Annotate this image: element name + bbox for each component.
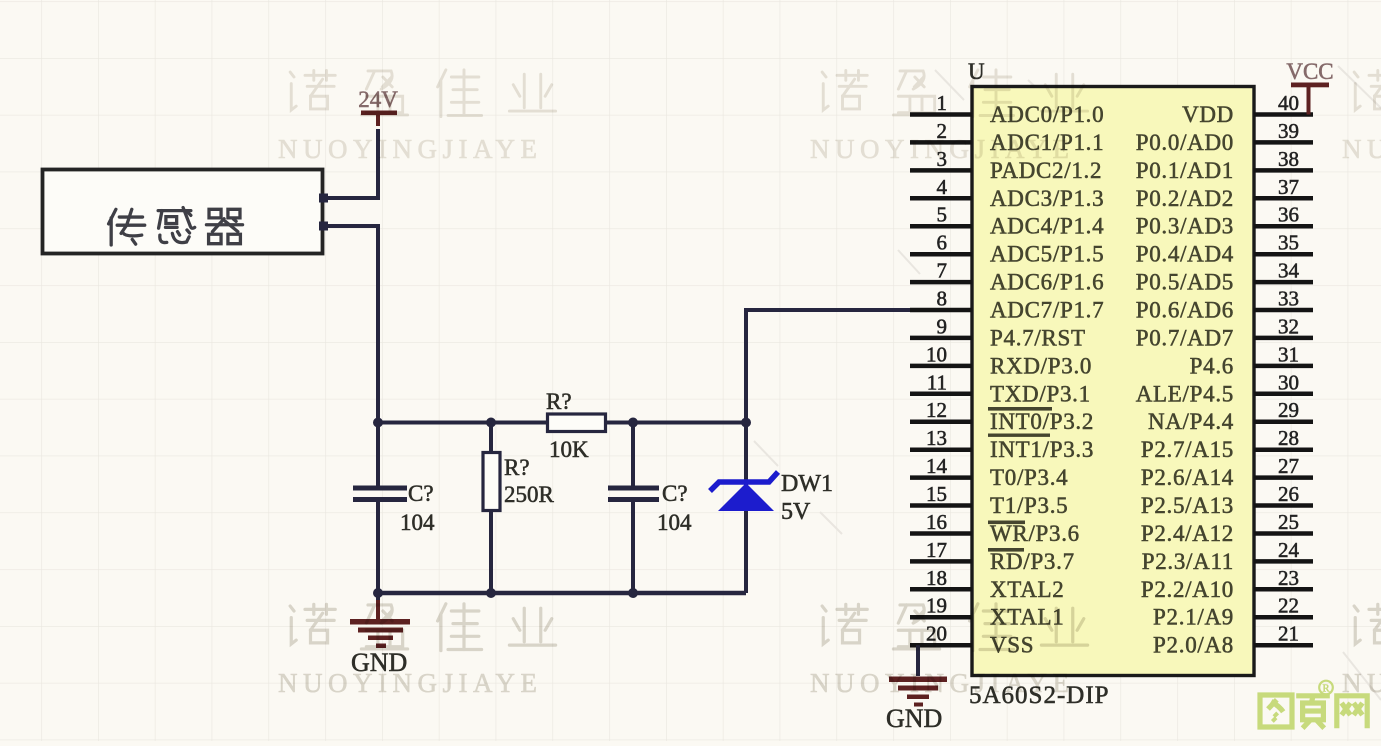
overline WR (pin 16) <box>988 521 1025 525</box>
svg-text:P0.1/AD1: P0.1/AD1 <box>1136 158 1234 183</box>
IC U 5A60S2-DIP body <box>972 87 1254 676</box>
pin 21 P2.0/A8 <box>1153 622 1313 658</box>
svg-text:32: 32 <box>1278 314 1299 338</box>
power +24V <box>358 87 398 126</box>
pin 14 T0/P3.4 <box>910 454 1068 490</box>
node sensor upper pin <box>319 194 328 203</box>
svg-text:VDD: VDD <box>1182 102 1234 127</box>
pin 9 P4.7/RST <box>910 314 1086 350</box>
junction top rail / C2 <box>628 418 638 428</box>
svg-text:35: 35 <box>1278 231 1299 255</box>
svg-text:14: 14 <box>926 454 948 478</box>
svg-text:XTAL1: XTAL1 <box>990 605 1064 630</box>
svg-text:XTAL2: XTAL2 <box>990 577 1064 602</box>
svg-text:P2.1/A9: P2.1/A9 <box>1153 605 1234 630</box>
svg-text:VCC: VCC <box>1286 59 1333 84</box>
svg-text:NUOYINGJIAYE: NUOYINGJIAYE <box>810 668 1075 698</box>
svg-text:17: 17 <box>926 538 947 562</box>
svg-text:ADC5/P1.5: ADC5/P1.5 <box>990 242 1104 267</box>
pin 36 P0.3/AD3 <box>1136 203 1313 239</box>
svg-text:28: 28 <box>1278 426 1299 450</box>
svg-text:INT0/P3.2: INT0/P3.2 <box>990 409 1094 434</box>
pin 11 TXD/P3.1 <box>910 370 1091 406</box>
svg-text:16: 16 <box>926 510 947 534</box>
svg-text:P0.5/AD5: P0.5/AD5 <box>1136 270 1234 295</box>
capacitor C1 <box>353 421 407 593</box>
svg-text:ADC7/P1.7: ADC7/P1.7 <box>990 298 1104 323</box>
svg-text:31: 31 <box>1278 342 1299 366</box>
pin 1 ADC0/P1.0 <box>910 91 1104 127</box>
pin 31 P4.6 <box>1190 342 1313 378</box>
svg-text:13: 13 <box>926 426 947 450</box>
wire top rail <box>378 421 746 425</box>
overline INT0 (pin 12) <box>988 407 1052 411</box>
svg-text:ADC4/P1.4: ADC4/P1.4 <box>990 214 1104 239</box>
svg-text:NA/P4.4: NA/P4.4 <box>1148 409 1234 434</box>
pin 3 PADC2/1.2 <box>910 147 1102 183</box>
svg-text:ADC6/P1.6: ADC6/P1.6 <box>990 270 1104 295</box>
svg-text:RXD/P3.0: RXD/P3.0 <box>990 353 1092 378</box>
pin 25 P2.4/A12 <box>1141 510 1313 546</box>
pin 32 P0.7/AD7 <box>1136 314 1313 350</box>
svg-text:ADC3/P1.3: ADC3/P1.3 <box>990 186 1104 211</box>
pin 23 P2.2/A10 <box>1141 566 1313 602</box>
svg-text:P0.7/AD7: P0.7/AD7 <box>1136 325 1234 350</box>
pin 28 P2.7/A15 <box>1141 426 1313 462</box>
svg-text:6: 6 <box>937 231 948 255</box>
ground GND chip VSS <box>886 645 947 733</box>
pin 15 T1/P3.5 <box>910 482 1068 518</box>
svg-text:WR/P3.6: WR/P3.6 <box>990 521 1080 546</box>
svg-text:104: 104 <box>400 510 435 535</box>
svg-text:250R: 250R <box>504 482 555 507</box>
ground GND left <box>350 593 410 677</box>
svg-text:ALE/P4.5: ALE/P4.5 <box>1136 381 1234 406</box>
svg-text:NUOYINGJIAYE: NUOYINGJIAYE <box>810 134 1075 164</box>
svg-text:T1/P3.5: T1/P3.5 <box>990 493 1068 518</box>
junction bottom rail / C1 <box>373 588 383 598</box>
svg-text:NUOYINGJIAYE: NUOYINGJIAYE <box>1342 134 1381 164</box>
svg-text:NUOYINGJIAYE: NUOYINGJIAYE <box>278 668 543 698</box>
svg-text:7: 7 <box>937 259 948 283</box>
pin 7 ADC6/P1.6 <box>910 259 1104 295</box>
svg-text:P4.7/RST: P4.7/RST <box>990 325 1086 350</box>
svg-text:GND: GND <box>886 704 942 733</box>
pin 39 P0.0/AD0 <box>1136 119 1313 155</box>
svg-text:INT1/P3.3: INT1/P3.3 <box>990 437 1094 462</box>
svg-text:19: 19 <box>926 594 947 618</box>
svg-text:18: 18 <box>926 566 947 590</box>
svg-text:8: 8 <box>937 287 948 311</box>
capacitor C2 <box>608 421 659 593</box>
svg-text:34: 34 <box>1278 259 1300 283</box>
pin 22 P2.1/A9 <box>1153 594 1313 630</box>
pin 30 ALE/P4.5 <box>1136 370 1313 406</box>
svg-text:C?: C? <box>662 481 688 506</box>
svg-text:38: 38 <box>1278 147 1299 171</box>
pin 18 XTAL2 <box>910 566 1064 602</box>
pin 4 ADC3/P1.3 <box>910 175 1104 211</box>
svg-text:11: 11 <box>927 370 947 394</box>
svg-text:104: 104 <box>657 510 692 535</box>
resistor R2 250R <box>483 421 500 593</box>
resistor R1 10K <box>548 414 606 432</box>
node sensor lower pin <box>319 222 328 231</box>
svg-text:P2.3/A11: P2.3/A11 <box>1142 549 1234 574</box>
pin 10 RXD/P3.0 <box>910 342 1092 378</box>
svg-text:30: 30 <box>1278 370 1299 394</box>
pin 37 P0.2/AD2 <box>1136 175 1313 211</box>
overline INT1 (pin 13) <box>988 434 1050 437</box>
svg-text:P2.6/A14: P2.6/A14 <box>1141 465 1234 490</box>
svg-text:26: 26 <box>1278 482 1299 506</box>
junction top rail / C1 <box>373 418 383 428</box>
overline RD (pin 17) <box>988 548 1024 552</box>
pin 19 XTAL1 <box>910 594 1064 630</box>
svg-text:P2.7/A15: P2.7/A15 <box>1141 437 1234 462</box>
junction bottom rail / R2 <box>486 588 496 598</box>
svg-text:R: R <box>1322 684 1329 695</box>
pin 27 P2.6/A14 <box>1141 454 1313 490</box>
wire sensor to filter rail <box>323 226 378 424</box>
pin 16 WR/P3.6 <box>910 510 1080 546</box>
svg-text:10K: 10K <box>549 437 589 462</box>
svg-text:36: 36 <box>1278 203 1299 227</box>
svg-text:P2.5/A13: P2.5/A13 <box>1141 493 1234 518</box>
junction bottom rail / C2 <box>628 588 638 598</box>
svg-text:21: 21 <box>1278 622 1299 646</box>
pin 35 P0.4/AD4 <box>1136 231 1313 267</box>
svg-text:22: 22 <box>1278 594 1299 618</box>
svg-text:15: 15 <box>926 482 947 506</box>
svg-text:20: 20 <box>926 622 947 646</box>
svg-text:NUOYINGJIAYE: NUOYINGJIAYE <box>278 134 543 164</box>
svg-text:33: 33 <box>1278 287 1299 311</box>
pin 17 RD/P3.7 <box>910 538 1075 574</box>
wire 24V to sensor pin <box>323 129 378 198</box>
pin 26 P2.5/A13 <box>1141 482 1313 518</box>
watermark overlay NUOYINGJIAYE <box>278 70 1381 698</box>
svg-text:24: 24 <box>1278 538 1300 562</box>
svg-text:40: 40 <box>1278 91 1299 115</box>
pin 13 INT1/P3.3 <box>910 426 1094 462</box>
pin 20 VSS <box>910 622 1034 658</box>
svg-text:P2.2/A10: P2.2/A10 <box>1141 577 1234 602</box>
svg-text:R?: R? <box>504 455 530 480</box>
svg-text:39: 39 <box>1278 119 1299 143</box>
svg-text:29: 29 <box>1278 398 1299 422</box>
svg-text:10: 10 <box>926 342 947 366</box>
svg-text:P2.0/A8: P2.0/A8 <box>1153 633 1234 658</box>
pin 24 P2.3/A11 <box>1142 538 1313 574</box>
junction top rail / R2 <box>486 418 496 428</box>
svg-text:37: 37 <box>1278 175 1299 199</box>
pin 8 ADC7/P1.7 <box>910 287 1104 323</box>
svg-text:P0.4/AD4: P0.4/AD4 <box>1136 242 1234 267</box>
svg-text:27: 27 <box>1278 454 1299 478</box>
svg-text:P0.2/AD2: P0.2/AD2 <box>1136 186 1234 211</box>
pin 6 ADC5/P1.5 <box>910 231 1104 267</box>
svg-text:23: 23 <box>1278 566 1299 590</box>
pin 38 P0.1/AD1 <box>1136 147 1313 183</box>
pin 12 INT0/P3.2 <box>910 398 1094 434</box>
svg-text:TXD/P3.1: TXD/P3.1 <box>990 381 1091 406</box>
svg-text:4: 4 <box>937 175 948 199</box>
pin 2 ADC1/P1.1 <box>910 119 1104 155</box>
wire bottom rail <box>378 591 746 596</box>
svg-text:P0.0/AD0: P0.0/AD0 <box>1136 130 1234 155</box>
svg-text:P0.3/AD3: P0.3/AD3 <box>1136 214 1234 239</box>
pin 40 VDD <box>1182 91 1313 127</box>
svg-text:5V: 5V <box>781 499 811 525</box>
svg-text:1: 1 <box>937 91 948 115</box>
zener diode DW1 <box>710 472 778 593</box>
power VCC <box>1286 59 1333 115</box>
svg-text:C?: C? <box>408 481 434 506</box>
pin 34 P0.5/AD5 <box>1136 259 1313 295</box>
pin 29 NA/P4.4 <box>1148 398 1313 434</box>
wire zener branch to chip pin 8 <box>746 310 972 485</box>
svg-text:P4.6: P4.6 <box>1190 353 1234 378</box>
sensor block 传感器 <box>43 170 323 254</box>
svg-text:NUOYINGJIAYE: NUOYINGJIAYE <box>1342 668 1381 698</box>
pin 33 P0.6/AD6 <box>1136 287 1313 323</box>
svg-text:DW1: DW1 <box>781 471 833 497</box>
svg-text:RD/P3.7: RD/P3.7 <box>990 549 1075 574</box>
svg-text:9: 9 <box>937 314 948 338</box>
logo 图页网 <box>1260 681 1367 729</box>
svg-text:25: 25 <box>1278 510 1299 534</box>
svg-text:P2.4/A12: P2.4/A12 <box>1141 521 1234 546</box>
svg-text:T0/P3.4: T0/P3.4 <box>990 465 1068 490</box>
junction top rail / zener <box>741 418 751 428</box>
svg-text:5: 5 <box>937 203 948 227</box>
svg-text:R?: R? <box>546 389 572 414</box>
svg-text:P0.6/AD6: P0.6/AD6 <box>1136 298 1234 323</box>
pin 5 ADC4/P1.4 <box>910 203 1104 239</box>
svg-text:12: 12 <box>926 398 947 422</box>
